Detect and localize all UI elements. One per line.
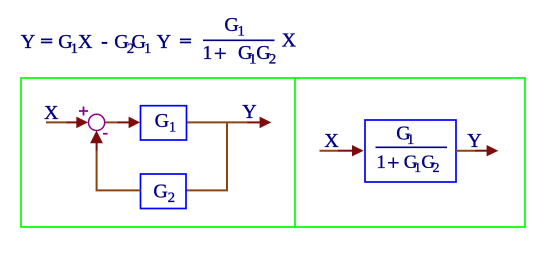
svg-text:X: X bbox=[324, 130, 339, 152]
arrowhead output Y (right panel) bbox=[475, 150, 487, 152]
arrowhead output Y bbox=[248, 121, 261, 123]
arrowhead feedback into summing junction (pointing up) bbox=[96, 142, 98, 151]
block G1 bbox=[141, 106, 187, 140]
wire input to closed-loop block bbox=[320, 150, 339, 152]
svg-text:X: X bbox=[44, 102, 59, 124]
block closed-loop transfer function bbox=[365, 120, 456, 182]
equation equals sign 2 bbox=[180, 39, 191, 44]
wire summing junction to block G1 bbox=[105, 121, 118, 123]
svg-text:Y: Y bbox=[157, 31, 171, 53]
wire block G2 left and up to summing junction bbox=[97, 150, 141, 190]
minus sign at summing junction bbox=[103, 133, 108, 135]
plus sign at summing junction bbox=[79, 107, 88, 116]
svg-text:1: 1 bbox=[237, 24, 245, 40]
equation minus sign bbox=[102, 42, 108, 44]
svg-text:X: X bbox=[282, 30, 297, 52]
svg-text:1: 1 bbox=[202, 42, 212, 64]
svg-text:X: X bbox=[78, 31, 93, 53]
svg-text:1: 1 bbox=[376, 152, 386, 173]
arrowhead into summing junction bbox=[67, 121, 78, 123]
svg-text:1: 1 bbox=[407, 132, 415, 148]
summing junction circle bbox=[89, 114, 105, 130]
equation equals sign 1 bbox=[41, 39, 52, 44]
svg-text:2: 2 bbox=[433, 161, 440, 176]
wire block G1 to output Y bbox=[187, 121, 248, 123]
svg-text:G: G bbox=[153, 181, 167, 203]
wire closed-loop block to output Y bbox=[456, 150, 476, 152]
wire feedback junction down and left to block G2 bbox=[186, 122, 227, 190]
arrowhead into closed-loop block bbox=[338, 150, 353, 152]
svg-text:1: 1 bbox=[414, 161, 421, 176]
svg-text:Y: Y bbox=[242, 101, 256, 123]
arrowhead into block G1 bbox=[118, 121, 130, 123]
green frame divider bbox=[294, 78, 296, 227]
svg-text:1: 1 bbox=[144, 41, 152, 57]
equation fraction bar bbox=[203, 39, 275, 41]
closed-loop fraction bar bbox=[376, 146, 448, 148]
svg-text:2: 2 bbox=[269, 52, 277, 68]
wire input to summing junction bbox=[46, 121, 67, 123]
svg-text:1: 1 bbox=[169, 120, 177, 136]
green frame outer rectangle bbox=[21, 78, 525, 227]
svg-text:Y: Y bbox=[467, 130, 481, 152]
svg-text:Y: Y bbox=[21, 31, 35, 53]
svg-text:2: 2 bbox=[168, 190, 176, 206]
svg-text:G: G bbox=[155, 110, 169, 132]
block G2 bbox=[141, 174, 187, 209]
svg-text:1: 1 bbox=[71, 41, 79, 57]
